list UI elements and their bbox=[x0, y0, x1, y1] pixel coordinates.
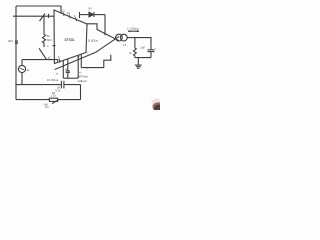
wire stub to IC pin 5 bbox=[57, 60, 59, 62]
sub loop right wire bbox=[77, 55, 79, 78]
pin tick bottom 5 bbox=[59, 59, 60, 63]
wire left rail bbox=[15, 6, 17, 100]
wire top rail bbox=[16, 6, 61, 13]
svg-text:3k3: 3k3 bbox=[8, 39, 13, 43]
beam lower diagonal bbox=[96, 36, 119, 52]
resistor R left rail 3k3 bbox=[15, 40, 18, 44]
svg-text:0.81a: 0.81a bbox=[88, 38, 99, 42]
svg-text:DTS31: DTS31 bbox=[65, 38, 75, 42]
wire offset arrow bbox=[81, 67, 104, 69]
svg-text:Adjust: Adjust bbox=[78, 79, 87, 83]
wire input y16 bbox=[13, 15, 54, 17]
pin 4 stub bbox=[53, 45, 56, 47]
wire bottom rail A bbox=[16, 84, 61, 86]
wire diagonal to pot bbox=[39, 48, 47, 59]
arrow on rail B bbox=[52, 100, 59, 104]
svg-text:a2: a2 bbox=[48, 55, 52, 59]
tube circle left bbox=[116, 34, 123, 41]
svg-text:+: + bbox=[154, 46, 156, 50]
svg-text:5.1k: 5.1k bbox=[56, 90, 61, 93]
svg-text:10: 10 bbox=[67, 11, 70, 15]
wire top-right corner bbox=[87, 24, 98, 30]
svg-text:0FFset: 0FFset bbox=[78, 75, 89, 79]
photo corner blob bbox=[151, 97, 164, 113]
ground drop bbox=[137, 58, 139, 65]
pin tick 9 stub right bbox=[79, 12, 81, 18]
wire drop x105 bbox=[104, 15, 106, 36]
svg-text:2μF: 2μF bbox=[140, 46, 145, 50]
junction dot input bbox=[15, 16, 16, 17]
wire AC branch bbox=[21, 60, 23, 66]
svg-text:A8.2: A8.2 bbox=[47, 38, 53, 42]
potentiometer P1 bbox=[43, 16, 45, 34]
sub loop bottom wire bbox=[63, 77, 78, 79]
svg-text:BY: BY bbox=[89, 8, 93, 11]
IC U1 trapezoid bbox=[54, 10, 87, 64]
sub loop left wire bbox=[62, 60, 64, 78]
arrow span bbox=[128, 30, 139, 32]
capacitor C 0.01u bars bbox=[60, 81, 62, 89]
svg-text:+1u: +1u bbox=[45, 105, 50, 109]
resistor 1k branch bbox=[134, 38, 136, 48]
capacitor mid branch bbox=[67, 59, 69, 71]
svg-text:t~20μs: t~20μs bbox=[127, 27, 139, 31]
pin tick top 10 bbox=[69, 14, 70, 18]
wire y59.6 bbox=[22, 59, 58, 61]
wire offset drop bbox=[80, 54, 82, 67]
AC source G1 bbox=[18, 65, 25, 72]
pin tick top 11 bbox=[63, 12, 64, 16]
tube circle right bbox=[120, 34, 127, 41]
pot arrow slash bbox=[40, 14, 46, 22]
svg-text:0.01u: 0.01u bbox=[47, 78, 59, 82]
wire out of circles bbox=[127, 38, 151, 50]
wire drop right of rail A bbox=[80, 85, 82, 100]
pin tick top 9 bbox=[76, 17, 77, 21]
capacitor 2uF bars bbox=[148, 49, 155, 51]
wire staircase bbox=[104, 55, 111, 68]
wire rc bottom bbox=[135, 57, 151, 59]
wire bottom rail B bbox=[16, 99, 81, 101]
diode D1 bbox=[89, 12, 93, 17]
svg-text:a1: a1 bbox=[27, 68, 31, 72]
ground symbol bbox=[135, 64, 142, 66]
svg-text:A:: A: bbox=[79, 70, 82, 74]
wire diode rail bbox=[80, 14, 89, 16]
resistor box on rail B bbox=[49, 98, 57, 101]
svg-text:2.1k: 2.1k bbox=[51, 95, 56, 98]
junction dot bbox=[15, 84, 16, 85]
pin tick 1 bbox=[48, 14, 50, 18]
beam upper diagonal bbox=[97, 30, 119, 41]
wire diode to drop bbox=[94, 14, 105, 16]
wire diagonal under IC to beam bbox=[55, 52, 96, 69]
